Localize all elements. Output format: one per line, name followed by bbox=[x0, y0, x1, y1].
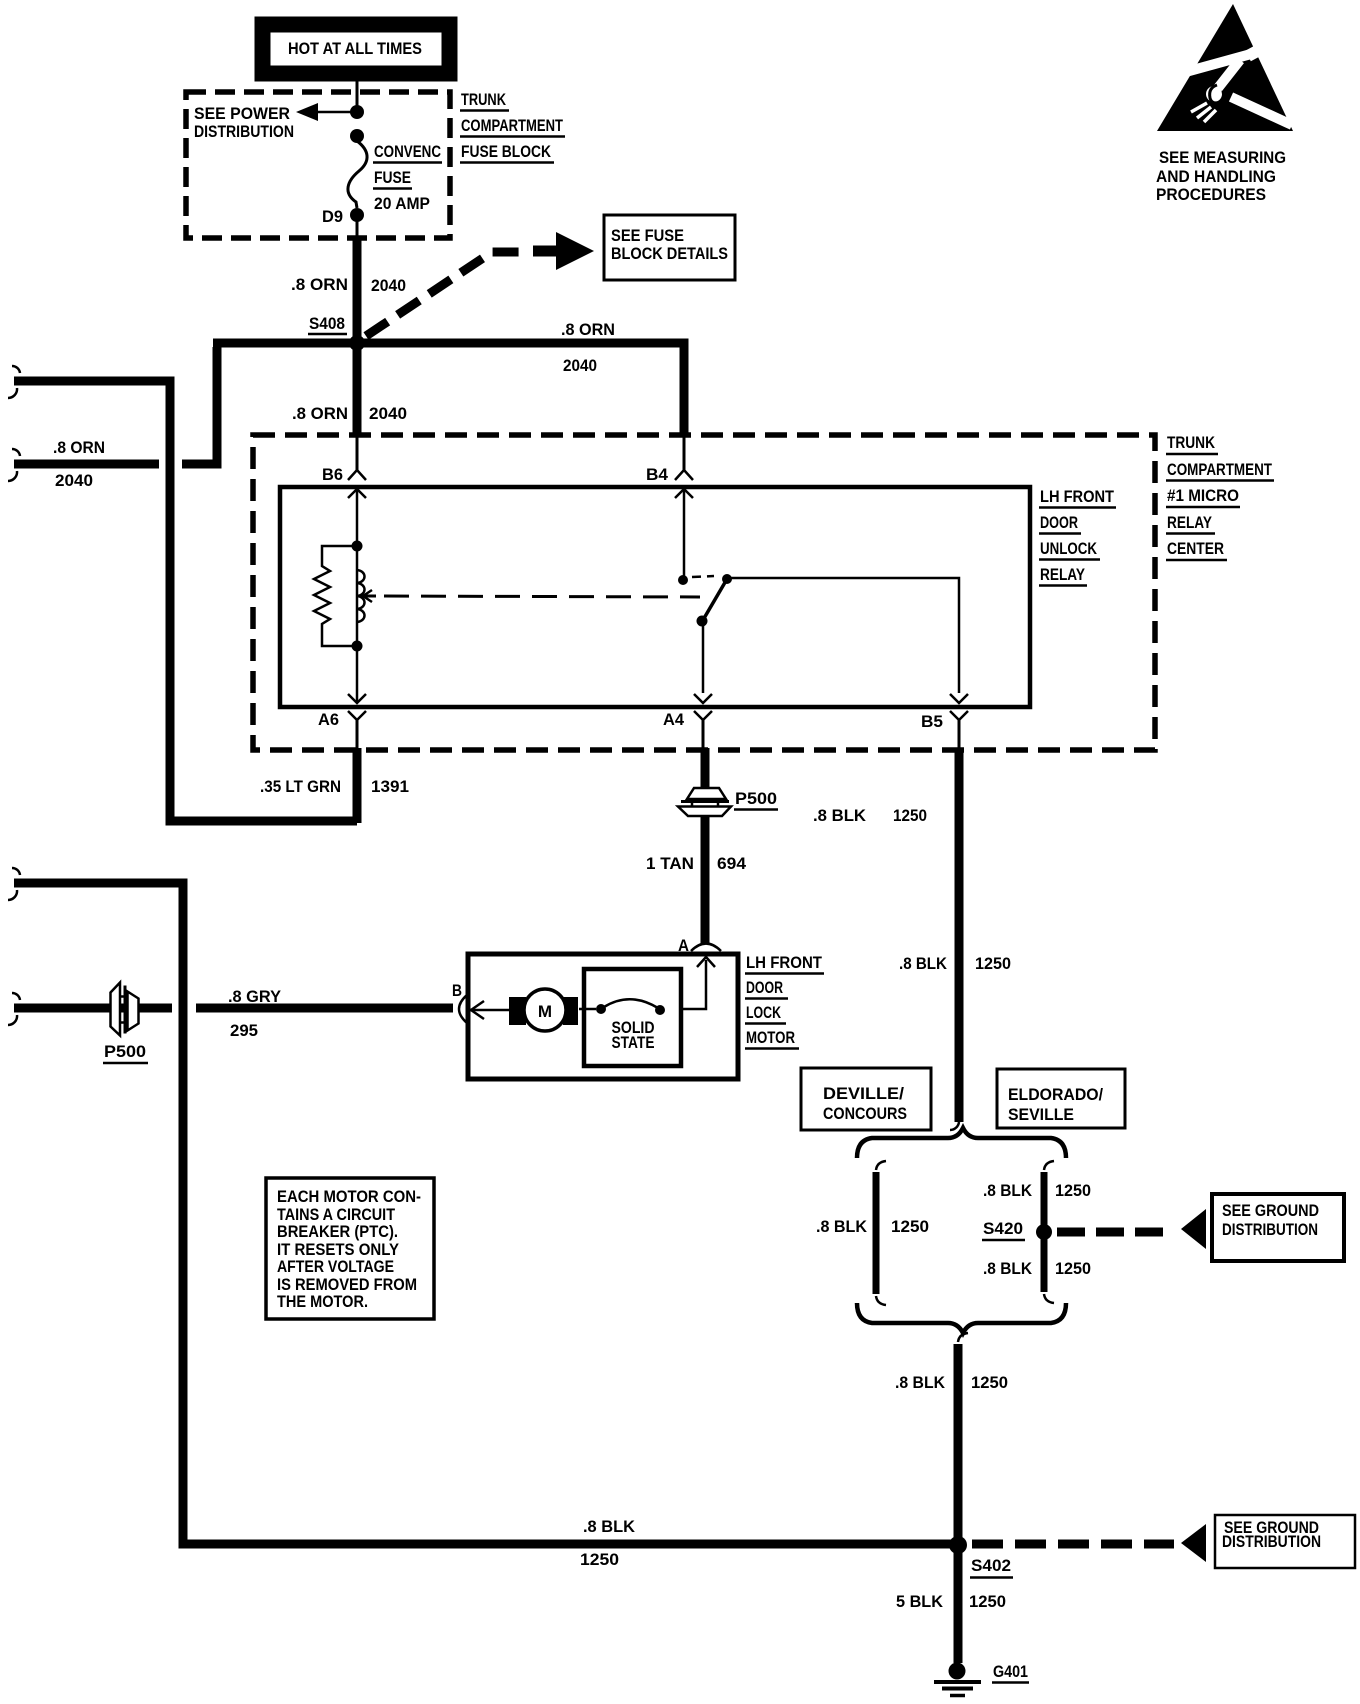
svg-text:A4: A4 bbox=[663, 710, 685, 729]
svg-text:2040: 2040 bbox=[563, 356, 597, 375]
see power distribution arrow bbox=[194, 103, 355, 141]
switch blade bbox=[703, 579, 727, 620]
solid state box bbox=[584, 969, 681, 1066]
svg-text:.8 BLK: .8 BLK bbox=[813, 806, 867, 825]
wire pivot to A4 pin bbox=[702, 623, 705, 693]
svg-text:#1 MICRO: #1 MICRO bbox=[1167, 486, 1239, 505]
relay coil junction dot (bottom) bbox=[352, 641, 363, 652]
resistor (coil suppression) bbox=[314, 546, 352, 646]
svg-text:DISTRIBUTION: DISTRIBUTION bbox=[194, 122, 294, 141]
svg-text:.8 ORN: .8 ORN bbox=[53, 438, 105, 457]
splice S408 junction dot bbox=[349, 335, 365, 351]
svg-text:DOOR: DOOR bbox=[746, 978, 783, 997]
wire D9 to S408 bbox=[356, 220, 359, 236]
svg-text:TRUNK: TRUNK bbox=[1167, 433, 1216, 452]
svg-text:1250: 1250 bbox=[969, 1592, 1006, 1611]
dashed reference line to fuse block details bbox=[366, 252, 524, 336]
svg-text:B: B bbox=[452, 981, 462, 1000]
breakout brace (upper) bbox=[857, 1128, 1066, 1158]
motor labels LH FRONT DOOR LOCK MOTOR bbox=[745, 953, 824, 1049]
wire solid state to motor bbox=[579, 1008, 596, 1011]
variant box ELDORADO/SEVILLE bbox=[997, 1069, 1125, 1128]
arrow to SEE FUSE BLOCK DETAILS bbox=[533, 232, 594, 270]
svg-text:UNLOCK: UNLOCK bbox=[1040, 539, 1098, 558]
svg-text:TRUNK: TRUNK bbox=[461, 90, 507, 109]
svg-text:1250: 1250 bbox=[893, 806, 927, 825]
svg-text:COMPARTMENT: COMPARTMENT bbox=[461, 116, 563, 135]
svg-text:1391: 1391 bbox=[371, 777, 409, 796]
svg-text:694: 694 bbox=[717, 854, 747, 873]
svg-text:1250: 1250 bbox=[971, 1373, 1008, 1392]
fuse block labels TRUNK COMPARTMENT FUSE BLOCK bbox=[460, 90, 565, 163]
switch moving contact dot bbox=[722, 574, 732, 584]
svg-text:1250: 1250 bbox=[580, 1550, 619, 1569]
power source box HOT AT ALL TIMES bbox=[263, 25, 450, 74]
node junction dot at feed bbox=[350, 105, 364, 119]
off-page wire (far left) from A6 .35 LT GRN bbox=[8, 366, 357, 821]
svg-text:2040: 2040 bbox=[369, 404, 407, 423]
svg-text:THE MOTOR.: THE MOTOR. bbox=[277, 1292, 368, 1311]
dashed reference from S420 to ground distribution bbox=[1057, 1209, 1206, 1249]
wire brace to S402 .8 BLK 1250 bbox=[895, 1333, 1008, 1663]
dashed gap between contacts bbox=[692, 576, 714, 577]
svg-text:.8 BLK: .8 BLK bbox=[983, 1259, 1033, 1278]
svg-text:B6: B6 bbox=[322, 465, 343, 484]
relay coil junction dot (top) bbox=[352, 541, 363, 552]
svg-text:.8 BLK: .8 BLK bbox=[816, 1217, 868, 1236]
breakout brace (lower) bbox=[857, 1303, 1066, 1333]
svg-text:1250: 1250 bbox=[891, 1217, 929, 1236]
fuse CONVENC FUSE 20 AMP bbox=[348, 141, 442, 222]
off-page wire (left) to S408 line bbox=[8, 347, 217, 481]
switch fixed contact dot (B4) bbox=[678, 575, 688, 585]
wire S408 to B4 bbox=[213, 343, 684, 437]
svg-text:B5: B5 bbox=[921, 712, 943, 731]
pin B4 connector bbox=[646, 437, 693, 498]
svg-text:1250: 1250 bbox=[975, 954, 1011, 973]
svg-text:1250: 1250 bbox=[1055, 1181, 1091, 1200]
svg-text:G401: G401 bbox=[993, 1662, 1028, 1681]
svg-text:DISTRIBUTION: DISTRIBUTION bbox=[1222, 1220, 1318, 1239]
svg-text:SEE MEASURING: SEE MEASURING bbox=[1159, 148, 1286, 167]
pin A6 connector bbox=[318, 651, 366, 729]
branch wire .8 BLK 1250 (Eldorado lower) bbox=[983, 1237, 1091, 1303]
wire P500 to motor pin A, 1 TAN 694 bbox=[646, 816, 747, 944]
svg-text:RELAY: RELAY bbox=[1040, 565, 1086, 584]
svg-text:MOTOR: MOTOR bbox=[746, 1028, 795, 1047]
in-line connector P500 (horizontal wire) bbox=[103, 983, 148, 1064]
svg-text:AFTER VOLTAGE: AFTER VOLTAGE bbox=[277, 1257, 394, 1276]
svg-text:.8 BLK: .8 BLK bbox=[583, 1517, 636, 1536]
wire A6 pin to off-page .35 LT GRN 1391 bbox=[260, 720, 409, 823]
off-page ground wire .8 BLK 1250 (left) bbox=[8, 868, 952, 1569]
svg-text:SEE FUSE: SEE FUSE bbox=[611, 226, 684, 245]
pin B6 connector bbox=[322, 437, 366, 498]
trunk compartment micro relay center dashed box bbox=[253, 435, 1155, 750]
relay center labels TRUNK COMPARTMENT #1 MICRO RELAY CENTER bbox=[1166, 433, 1274, 560]
svg-text:.8 BLK: .8 BLK bbox=[983, 1181, 1033, 1200]
svg-text:DEVILLE/: DEVILLE/ bbox=[823, 1084, 904, 1103]
svg-text:A: A bbox=[678, 936, 689, 955]
svg-text:EACH MOTOR CON-: EACH MOTOR CON- bbox=[277, 1187, 421, 1206]
svg-text:DISTRIBUTION: DISTRIBUTION bbox=[1222, 1532, 1321, 1551]
svg-text:FUSE BLOCK: FUSE BLOCK bbox=[461, 142, 552, 161]
solid state contact dots and curve bbox=[596, 999, 665, 1015]
wire B5 pin down .8 BLK 1250 bbox=[813, 720, 1011, 1130]
reference box SEE GROUND DISTRIBUTION (lower) bbox=[1215, 1515, 1355, 1568]
branch wire .8 BLK 1250 (Deville) bbox=[816, 1161, 929, 1305]
junction dot above fuse bbox=[350, 129, 364, 143]
reference box SEE GROUND DISTRIBUTION (upper) bbox=[1212, 1194, 1344, 1261]
dashed reference from S402 to ground distribution bbox=[972, 1524, 1206, 1562]
motor pin A connector bbox=[678, 936, 721, 967]
relay labels LH FRONT DOOR UNLOCK RELAY bbox=[1039, 487, 1116, 586]
svg-text:SEVILLE: SEVILLE bbox=[1008, 1105, 1074, 1124]
svg-text:RELAY: RELAY bbox=[1167, 513, 1213, 532]
wire B6 pin to relay coil bbox=[356, 489, 359, 546]
motor box LH FRONT DOOR LOCK MOTOR bbox=[468, 954, 738, 1079]
motor pin B connector bbox=[452, 981, 484, 1023]
svg-text:.8 BLK: .8 BLK bbox=[895, 1373, 946, 1392]
svg-text:ELDORADO/: ELDORADO/ bbox=[1008, 1085, 1103, 1104]
off-page wire .8 GRY 295 to motor pin B bbox=[8, 987, 453, 1040]
svg-text:S408: S408 bbox=[309, 314, 345, 333]
svg-text:2040: 2040 bbox=[371, 276, 406, 295]
switch pivot dot (A4) bbox=[697, 616, 708, 627]
pin B5 connector bbox=[921, 694, 968, 731]
svg-text:1 TAN: 1 TAN bbox=[646, 854, 694, 873]
svg-text:LH FRONT: LH FRONT bbox=[1040, 487, 1115, 506]
wire S408 down to B6 bbox=[353, 343, 362, 437]
svg-text:.35 LT GRN: .35 LT GRN bbox=[260, 777, 341, 796]
wire A4 pin down to P500 bbox=[703, 720, 705, 790]
splice S402 bbox=[949, 1536, 1013, 1578]
ground G401 bbox=[934, 1662, 1029, 1696]
svg-text:CONCOURS: CONCOURS bbox=[823, 1104, 907, 1123]
relay coil winding bbox=[356, 551, 359, 641]
wire contact to B5 bbox=[727, 578, 959, 693]
relay U1 box LH FRONT DOOR UNLOCK RELAY bbox=[280, 487, 1030, 707]
reference box SEE FUSE BLOCK DETAILS bbox=[604, 215, 735, 280]
svg-text:.8 ORN: .8 ORN bbox=[561, 320, 615, 339]
wire motor to pin B bbox=[470, 1009, 509, 1012]
in-line connector P500 (vertical wire) bbox=[678, 788, 778, 816]
svg-text:DOOR: DOOR bbox=[1040, 513, 1078, 532]
svg-text:STATE: STATE bbox=[612, 1033, 655, 1052]
svg-text:AND HANDLING: AND HANDLING bbox=[1156, 167, 1276, 186]
wire B4 pin to switch contact bbox=[683, 489, 686, 576]
ESD warning symbol bbox=[1156, 4, 1293, 204]
svg-text:P500: P500 bbox=[104, 1042, 146, 1061]
svg-text:1250: 1250 bbox=[1055, 1259, 1091, 1278]
wire from HOT box to fuse block bbox=[356, 78, 359, 108]
svg-text:BREAKER (PTC).: BREAKER (PTC). bbox=[277, 1222, 398, 1241]
svg-text:LOCK: LOCK bbox=[746, 1003, 782, 1022]
svg-text:BLOCK DETAILS: BLOCK DETAILS bbox=[611, 244, 728, 263]
svg-text:FUSE: FUSE bbox=[374, 168, 411, 187]
motor M1 with terminals bbox=[509, 989, 578, 1031]
svg-text:S420: S420 bbox=[983, 1219, 1023, 1238]
svg-text:B4: B4 bbox=[646, 465, 669, 484]
variant box DEVILLE/CONCOURS bbox=[801, 1068, 931, 1130]
svg-text:COMPARTMENT: COMPARTMENT bbox=[1167, 460, 1272, 479]
svg-text:CENTER: CENTER bbox=[1167, 539, 1224, 558]
svg-text:S402: S402 bbox=[971, 1556, 1011, 1575]
relay actuator dashed link bbox=[363, 590, 700, 602]
wire pin A to solid state bbox=[683, 960, 706, 1009]
svg-text:HOT AT ALL TIMES: HOT AT ALL TIMES bbox=[288, 39, 422, 58]
svg-text:SEE POWER: SEE POWER bbox=[194, 104, 290, 123]
svg-text:M: M bbox=[538, 1002, 552, 1021]
pin A4 connector bbox=[663, 694, 712, 729]
svg-text:.8 BLK: .8 BLK bbox=[899, 954, 948, 973]
trunk compartment fuse block dashed box bbox=[186, 92, 450, 238]
svg-text:.8 GRY: .8 GRY bbox=[228, 987, 282, 1006]
splice S420 bbox=[982, 1219, 1052, 1240]
svg-text:20 AMP: 20 AMP bbox=[374, 194, 430, 213]
svg-text:LH FRONT: LH FRONT bbox=[746, 953, 823, 972]
svg-text:5 BLK: 5 BLK bbox=[896, 1592, 944, 1611]
svg-text:SEE GROUND: SEE GROUND bbox=[1222, 1201, 1319, 1220]
svg-text:.8 ORN: .8 ORN bbox=[291, 275, 348, 294]
branch wire .8 BLK 1250 (Eldorado upper) bbox=[983, 1161, 1091, 1227]
note box EACH MOTOR CONTAINS A CIRCUIT BREAKER bbox=[266, 1178, 434, 1319]
svg-text:D9: D9 bbox=[322, 207, 343, 226]
svg-text:A6: A6 bbox=[318, 710, 339, 729]
svg-text:2040: 2040 bbox=[55, 471, 93, 490]
svg-text:295: 295 bbox=[230, 1021, 258, 1040]
wire label 5 BLK 1250 bbox=[896, 1592, 1006, 1611]
svg-text:.8 ORN: .8 ORN bbox=[292, 404, 348, 423]
svg-text:PROCEDURES: PROCEDURES bbox=[1156, 185, 1266, 204]
svg-text:CONVENC: CONVENC bbox=[374, 142, 441, 161]
svg-text:P500: P500 bbox=[735, 789, 777, 808]
